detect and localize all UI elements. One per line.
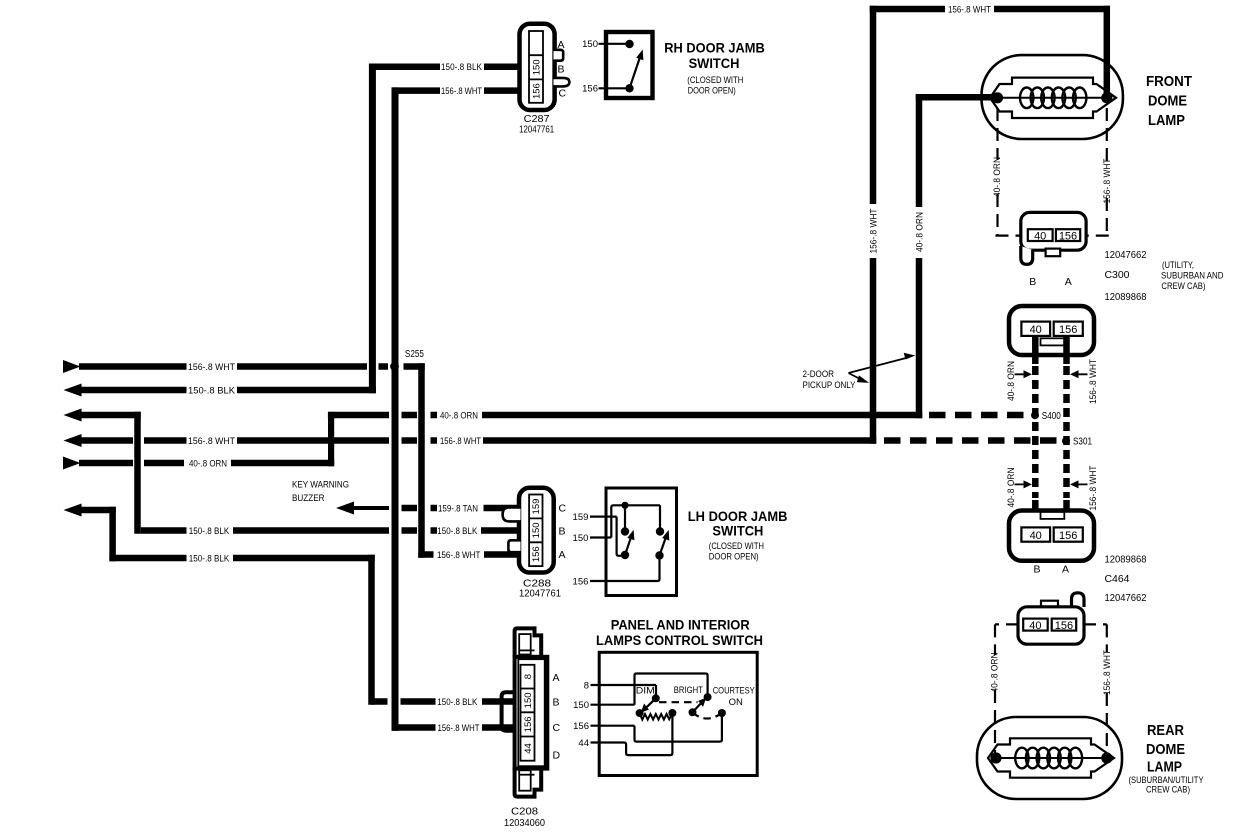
C208 inner window — [518, 659, 544, 766]
svg-text:150: 150 — [531, 59, 542, 75]
arrow callouts lower pair — [1006, 465, 1098, 510]
svg-text:12047662: 12047662 — [1105, 250, 1147, 261]
svg-text:156-.8 WHT: 156-.8 WHT — [1102, 650, 1112, 695]
svg-text:A: A — [1065, 276, 1072, 288]
connector C464 mate (12089868) lower body — [1009, 500, 1094, 576]
panel switch BRIGHT arm with arrow — [693, 704, 701, 713]
svg-text:159-.8 TAN: 159-.8 TAN — [438, 503, 478, 513]
svg-text:150: 150 — [573, 533, 589, 544]
svg-text:156: 156 — [531, 546, 542, 562]
C464 top tab — [1041, 601, 1058, 609]
RH switch pin 156 stub — [599, 87, 628, 89]
svg-text:S400: S400 — [1042, 411, 1061, 422]
wire 156-8 WHT top run to front dome lamp — [870, 4, 1110, 14]
svg-text:156: 156 — [1059, 530, 1077, 542]
svg-text:40-.8 ORN: 40-.8 ORN — [440, 410, 478, 420]
utility suburban crew cab note — [1161, 260, 1224, 291]
wire vertical bus V1 (150 BLK, C287 to R2) — [369, 63, 376, 393]
dashed drop 156 WHT from C464 to rear lamp — [1083, 624, 1112, 753]
panel switch pin 8 stub — [591, 685, 657, 695]
RH switch pin 150 stub — [599, 43, 628, 45]
C288 tab between B and A — [508, 540, 520, 552]
svg-text:159: 159 — [573, 512, 589, 523]
rear dome lamp title — [1129, 722, 1204, 795]
svg-text:156: 156 — [582, 84, 598, 95]
svg-text:C300: C300 — [1105, 270, 1130, 281]
svg-text:156: 156 — [523, 716, 534, 732]
svg-text:COURTESY: COURTESY — [713, 686, 756, 697]
svg-text:156: 156 — [1059, 230, 1077, 242]
wire 150-8 BLK to C208 pin B — [371, 697, 521, 707]
LH switch right arm with arrow — [660, 537, 667, 556]
svg-text:A: A — [558, 39, 565, 51]
wire 159-8 TAN row R6 to key warning buzzer — [292, 479, 530, 514]
dashed drop 40 ORN from front lamp to C300 — [992, 108, 1020, 236]
C208 bottom cap — [515, 768, 542, 797]
svg-text:DOOR OPEN): DOOR OPEN) — [709, 551, 759, 562]
C208 left latch bump — [502, 692, 515, 730]
wire 150-8 BLK row R8 to panel switch — [64, 504, 375, 564]
front dome lamp housing bracket — [990, 78, 1116, 118]
C208 top cap — [515, 628, 542, 658]
wire vertical bus V2 (156 WHT, C287 to C208 via S255) — [392, 87, 399, 731]
dashed drop 40 ORN from C464 to rear lamp — [989, 624, 1019, 753]
svg-text:40-.8 ORN: 40-.8 ORN — [189, 458, 227, 468]
upper connector wire stubs — [1035, 336, 1066, 364]
panel and interior lamps control switch title — [596, 617, 763, 649]
svg-text:156: 156 — [531, 83, 542, 99]
lower connector terminal box 40 — [1021, 527, 1050, 541]
lower connector part numbers — [1105, 555, 1147, 605]
svg-text:SUBURBAN AND: SUBURBAN AND — [1161, 271, 1224, 281]
RH switch contact 156 — [625, 84, 633, 92]
front dome lamp right terminal — [1101, 92, 1112, 103]
rear dome lamp filament line — [996, 757, 1107, 759]
svg-text:B: B — [1033, 564, 1040, 576]
svg-text:40: 40 — [1034, 230, 1046, 242]
svg-text:C: C — [559, 503, 567, 515]
svg-text:156: 156 — [573, 576, 589, 587]
connector C208 body — [502, 628, 561, 828]
LH switch right arm contact — [655, 551, 663, 559]
LH switch left arm with arrow — [625, 537, 631, 555]
wire 156-8 WHT row R13 to C288 pin A — [418, 550, 530, 560]
svg-text:156: 156 — [573, 721, 589, 732]
wire vertical V9 (R3 to R5) — [328, 412, 334, 466]
panel and interior lamps control switch box — [573, 652, 757, 775]
svg-text:150-.8 BLK: 150-.8 BLK — [437, 526, 477, 536]
RH door jamb switch title — [664, 40, 765, 97]
rear dome lamp outline — [977, 717, 1122, 799]
RH switch arm with arrow — [630, 57, 641, 89]
svg-text:(UTILITY,: (UTILITY, — [1162, 260, 1194, 270]
panel switch DIM arm with arrow — [647, 698, 656, 707]
svg-text:40-.8 ORN: 40-.8 ORN — [1006, 467, 1016, 507]
connector C287 body — [519, 24, 569, 136]
C287 finger tab at pin C — [554, 78, 570, 87]
svg-text:S255: S255 — [405, 349, 424, 360]
svg-text:RH DOOR JAMB: RH DOOR JAMB — [664, 40, 765, 56]
panel switch pin 150 stub — [591, 674, 708, 705]
svg-text:156-.8 WHT: 156-.8 WHT — [1088, 359, 1098, 404]
svg-text:156: 156 — [1059, 324, 1077, 336]
dashed drop 156 WHT from front lamp to C300 — [1086, 108, 1112, 236]
svg-text:D: D — [553, 750, 561, 762]
wire vertical V4 (R3 down to R7) — [134, 412, 141, 534]
panel switch DIM left contact — [636, 709, 644, 717]
2-door pickup only callout — [803, 353, 916, 391]
svg-text:A: A — [559, 549, 566, 561]
LH switch left arm contact — [621, 551, 629, 559]
wire 156-8 WHT to C287 pin C — [392, 86, 530, 96]
wire vertical V8 156 WHT into lamp right terminal — [1104, 6, 1111, 98]
front dome lamp left terminal — [992, 92, 1003, 103]
C208 top cap inner — [519, 634, 531, 654]
svg-text:B: B — [558, 63, 565, 75]
panel switch rheostat resistor — [640, 713, 673, 720]
svg-text:2-DOOR: 2-DOOR — [803, 369, 835, 380]
svg-text:150-.8 BLK: 150-.8 BLK — [437, 697, 477, 707]
svg-text:156-.8 WHT: 156-.8 WHT — [440, 436, 481, 446]
svg-text:156-.8 WHT: 156-.8 WHT — [1102, 158, 1112, 203]
wire 40-8 ORN into front dome lamp left terminal — [916, 94, 999, 101]
svg-text:156-.8 WHT: 156-.8 WHT — [868, 208, 878, 253]
svg-text:CREW CAB): CREW CAB) — [1161, 281, 1205, 291]
wire vertical V7 (R8 down to C208 pin B row) — [368, 555, 375, 705]
splice S255 — [390, 349, 424, 371]
connector C300 body — [1021, 212, 1086, 287]
svg-text:156-.8 WHT: 156-.8 WHT — [1088, 465, 1098, 510]
panel switch BRIGHT pivot contact — [704, 693, 712, 701]
front dome lamp title — [1146, 73, 1192, 129]
LH switch pin 159 stub — [590, 517, 621, 556]
LH switch rail junction dot — [621, 502, 628, 509]
svg-text:156-.8 WHT: 156-.8 WHT — [948, 4, 991, 14]
panel switch courtesy dashed arc — [693, 712, 722, 718]
svg-text:159: 159 — [531, 499, 542, 515]
svg-text:ON: ON — [729, 697, 743, 708]
svg-text:LAMPS CONTROL SWITCH: LAMPS CONTROL SWITCH — [596, 632, 763, 648]
panel switch ganged linkage dashed — [659, 701, 698, 703]
svg-text:40: 40 — [1030, 324, 1042, 336]
svg-text:40-.8 ORN: 40-.8 ORN — [989, 653, 999, 693]
wire vertical V5 156-8 WHT (2-door pickup) — [868, 6, 878, 444]
LH door jamb switch title — [688, 508, 788, 562]
svg-text:156-.8 WHT: 156-.8 WHT — [441, 86, 482, 96]
svg-text:40-.8 ORN: 40-.8 ORN — [992, 157, 1002, 197]
svg-text:8: 8 — [584, 680, 589, 691]
panel switch pin 156 stub — [591, 716, 722, 742]
C464 terminal box 156 — [1052, 619, 1077, 631]
wire 156-8 WHT row R4 — [64, 434, 1058, 447]
svg-text:PANEL AND INTERIOR: PANEL AND INTERIOR — [611, 617, 750, 633]
svg-text:PICKUP ONLY: PICKUP ONLY — [803, 380, 857, 391]
svg-text:DOME: DOME — [1148, 93, 1187, 110]
svg-text:B: B — [553, 697, 560, 709]
svg-text:BRIGHT: BRIGHT — [674, 685, 703, 696]
svg-text:12034060: 12034060 — [504, 818, 545, 829]
svg-text:8: 8 — [523, 674, 534, 679]
wire 40-8 ORN row R5 — [63, 457, 334, 470]
svg-text:150-.8 BLK: 150-.8 BLK — [441, 62, 482, 72]
svg-text:40: 40 — [1030, 530, 1042, 542]
svg-text:CREW CAB): CREW CAB) — [1146, 785, 1190, 795]
connector C464 body — [1018, 593, 1084, 644]
rear dome lamp filament coil — [1015, 748, 1082, 769]
svg-text:40-.8 ORN: 40-.8 ORN — [914, 212, 924, 252]
svg-text:C287: C287 — [524, 114, 550, 125]
front dome lamp filament line — [998, 97, 1107, 99]
svg-text:12089868: 12089868 — [1105, 292, 1147, 303]
svg-text:BUZZER: BUZZER — [292, 493, 325, 504]
svg-text:DIM: DIM — [636, 686, 655, 697]
svg-text:150: 150 — [531, 522, 542, 538]
lower connector top notch — [1041, 512, 1065, 519]
C300 terminal box 156 — [1056, 229, 1080, 241]
wire vertical V10 (R8a to R8) — [109, 507, 116, 562]
panel switch DIM pivot contact — [652, 694, 660, 702]
dashed vertical 40 ORN between connectors with S400 — [1035, 366, 1066, 498]
svg-text:150-.8 BLK: 150-.8 BLK — [189, 553, 230, 563]
svg-text:DOOR OPEN): DOOR OPEN) — [688, 86, 736, 97]
svg-text:156-.8 WHT: 156-.8 WHT — [438, 723, 480, 733]
svg-text:150: 150 — [582, 39, 598, 50]
C208 main body — [515, 657, 548, 769]
svg-text:C: C — [559, 87, 567, 99]
splice S301 — [1062, 437, 1092, 448]
C287 tab between A and B — [554, 50, 564, 61]
svg-text:A: A — [1062, 564, 1069, 576]
LH switch right fixed contact — [656, 527, 664, 535]
upper connector terminal box 40 — [1021, 322, 1050, 336]
C300 terminal box 40 — [1028, 229, 1053, 241]
C288 finger tab between C and B — [503, 507, 521, 521]
svg-text:S301: S301 — [1073, 437, 1092, 448]
svg-text:150-.8 BLK: 150-.8 BLK — [188, 385, 235, 395]
wire 150-8 BLK row R7 to C288 pin B — [141, 526, 530, 536]
svg-text:SWITCH: SWITCH — [689, 55, 740, 71]
rear dome lamp left terminal — [990, 752, 1001, 763]
svg-text:B: B — [1029, 276, 1036, 288]
svg-text:SWITCH: SWITCH — [712, 522, 763, 538]
lower connector terminal box 156 — [1054, 527, 1083, 541]
svg-text:150: 150 — [523, 692, 534, 708]
front dome lamp outline — [916, 6, 1123, 139]
svg-text:(SUBURBAN/UTILITY: (SUBURBAN/UTILITY — [1129, 775, 1204, 785]
C464 terminal box 40 — [1023, 619, 1047, 631]
C287 inner terminal column — [529, 31, 543, 103]
panel switch COURTESY contact — [718, 709, 726, 717]
svg-text:156-.8 WHT: 156-.8 WHT — [437, 550, 481, 560]
upper connector bottom notch — [1041, 338, 1065, 345]
svg-text:DOME: DOME — [1146, 741, 1185, 758]
C288 inner terminal column — [529, 495, 542, 567]
svg-text:KEY WARNING: KEY WARNING — [292, 479, 349, 490]
C208 terminal column — [521, 665, 535, 761]
svg-text:C464: C464 — [1105, 574, 1130, 585]
LH switch pin 156 stub — [590, 559, 660, 581]
connector C288 body — [503, 488, 567, 600]
svg-text:150: 150 — [573, 700, 589, 711]
svg-text:12047761: 12047761 — [519, 125, 554, 136]
panel switch BRIGHT lower contact — [689, 708, 697, 716]
svg-text:156: 156 — [1055, 620, 1073, 632]
wire 150-8 BLK to C287 pin B — [369, 62, 530, 72]
C300 bottom tab — [1046, 249, 1061, 257]
svg-text:12047662: 12047662 — [1105, 593, 1147, 604]
LH door jamb switch box — [573, 488, 677, 596]
svg-text:FRONT: FRONT — [1146, 73, 1192, 90]
svg-text:LAMP: LAMP — [1148, 112, 1185, 129]
upper connector terminal box 156 — [1054, 322, 1083, 336]
svg-text:44: 44 — [523, 743, 534, 754]
rear dome lamp housing bracket — [988, 738, 1114, 777]
panel switch pin 44 stub — [591, 716, 673, 755]
arrow callouts upper pair — [1006, 359, 1098, 404]
svg-text:12089868: 12089868 — [1105, 555, 1147, 566]
panel switch resistor right contact — [668, 709, 676, 717]
svg-text:156-.8 WHT: 156-.8 WHT — [188, 436, 235, 446]
svg-text:150-.8 BLK: 150-.8 BLK — [189, 526, 230, 536]
C464 top-right hook — [1072, 593, 1085, 610]
C300 bottom-left leg — [1021, 246, 1033, 264]
svg-text:12047761: 12047761 — [519, 589, 561, 600]
wire 156-8 WHT row R1 to S255 — [63, 360, 425, 373]
C300 part numbers — [1105, 250, 1147, 303]
wire vertical V3 (S255 down to C288 pin A row) — [418, 363, 425, 558]
svg-text:A: A — [553, 672, 560, 684]
svg-text:156-.8 WHT: 156-.8 WHT — [188, 362, 235, 372]
svg-text:C208: C208 — [511, 807, 538, 818]
svg-text:B: B — [559, 526, 566, 538]
svg-text:(CLOSED WITH: (CLOSED WITH — [687, 75, 743, 86]
svg-text:LAMP: LAMP — [1147, 759, 1182, 776]
splice S400 — [1031, 411, 1061, 422]
LH switch pin 150 stub — [590, 505, 660, 537]
LH switch left fixed contact — [624, 505, 626, 528]
wire vertical V6 40-8 ORN (2-door pickup) — [914, 94, 924, 418]
svg-text:40-.8 ORN: 40-.8 ORN — [1006, 361, 1016, 401]
svg-text:C: C — [553, 722, 561, 734]
RH door jamb switch box — [582, 32, 652, 98]
svg-text:40: 40 — [1029, 620, 1041, 632]
svg-text:REAR: REAR — [1147, 722, 1184, 739]
rear dome lamp right terminal — [1101, 752, 1112, 763]
connector C300 mate (12089868) upper body — [1009, 306, 1094, 364]
wire 150-8 BLK row R2 — [64, 384, 376, 397]
RH switch contact 150 — [625, 40, 633, 48]
wire 40-8 ORN row R3 — [64, 409, 1028, 422]
C208 bottom cap inner — [519, 770, 531, 790]
svg-text:44: 44 — [578, 738, 589, 749]
front dome lamp filament coil — [1020, 88, 1086, 109]
wire 156-8 WHT to C208 pin C — [395, 723, 521, 733]
